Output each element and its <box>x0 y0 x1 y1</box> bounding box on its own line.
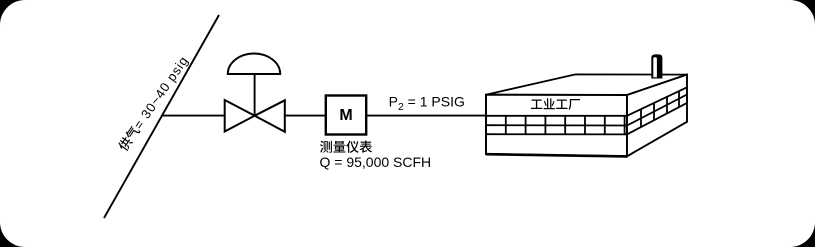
control valve V1: diaphragm actuator dome <box>228 53 280 74</box>
industrial plant: roof <box>486 74 687 95</box>
meter M (measuring instrument box) <box>326 96 366 135</box>
industrial plant: front face <box>486 95 627 157</box>
label: supply pressure 供气= 30~40 psig (rotated) <box>116 53 192 153</box>
control valve V1: body (two triangles) <box>225 100 255 132</box>
label: 工业工厂 (industrial plant) <box>531 98 580 110</box>
industrial plant: front window dividers <box>506 116 625 135</box>
wire: pipe from meter to plant <box>367 115 487 117</box>
svg-text:P2 = 1 PSIG: P2 = 1 PSIG <box>389 94 465 114</box>
label: 测量仪表 (measuring instrument) <box>320 141 372 153</box>
svg-text:Q = 95,000 SCFH: Q = 95,000 SCFH <box>320 154 432 170</box>
wire: pipe from supply line to valve <box>162 115 226 117</box>
industrial plant: chimney <box>651 54 662 78</box>
industrial plant: front window band lines <box>486 115 627 117</box>
svg-text:M: M <box>339 107 352 124</box>
svg-text:= 30~40 psig: = 30~40 psig <box>131 53 192 132</box>
industrial plant: right window band lines <box>627 87 687 116</box>
industrial plant: right side face <box>627 75 687 157</box>
supply line (diagonal gas main) <box>104 15 219 218</box>
industrial plant: right window dividers <box>641 91 679 127</box>
control valve V1: stem <box>254 74 256 116</box>
wire: pipe from valve to meter <box>285 115 326 117</box>
